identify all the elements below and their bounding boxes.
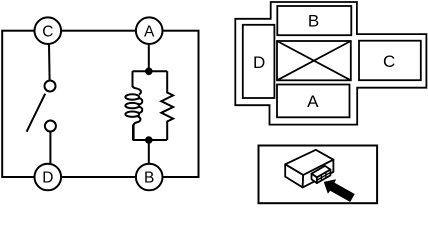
svg-text:C: C: [383, 52, 395, 71]
svg-text:A: A: [144, 23, 155, 40]
svg-text:D: D: [253, 53, 265, 72]
svg-text:A: A: [307, 92, 319, 111]
svg-text:D: D: [42, 170, 53, 187]
svg-text:B: B: [308, 11, 319, 30]
svg-text:C: C: [42, 23, 53, 40]
svg-text:B: B: [144, 170, 154, 187]
